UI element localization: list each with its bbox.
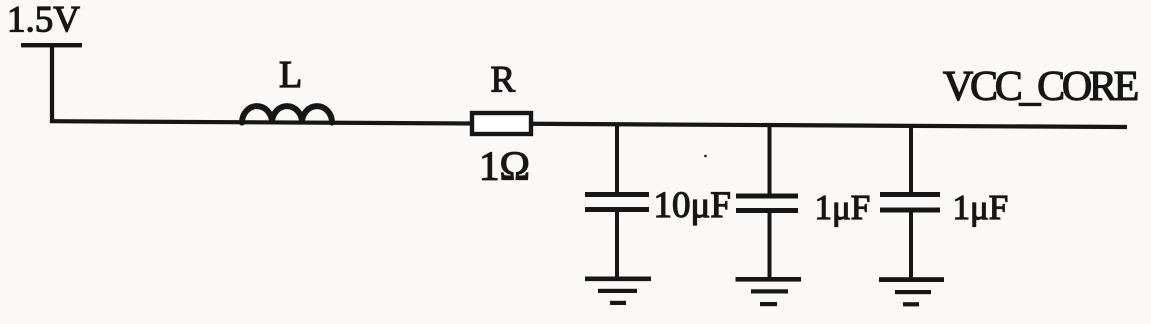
wire main rail [50, 121, 1127, 127]
ground G3 [879, 277, 944, 282]
inductor L [242, 106, 332, 123]
wire cap C3 stub [909, 125, 913, 278]
svg-text:10μF: 10μF [654, 185, 731, 226]
resistor R [472, 113, 531, 134]
svg-text:VCC_CORE: VCC_CORE [943, 64, 1138, 110]
capacitor C3 [880, 192, 940, 197]
svg-text:L: L [279, 54, 302, 96]
svg-text:1Ω: 1Ω [479, 143, 530, 189]
wire cap C2 stub [768, 124, 772, 278]
svg-text:1.5V: 1.5V [7, 0, 80, 41]
svg-text:1μF: 1μF [953, 188, 1009, 227]
svg-text:R: R [491, 60, 516, 101]
ground G1 [585, 277, 651, 282]
power terminal bar [21, 43, 82, 47]
capacitor C1 [585, 192, 649, 197]
ground G2 [736, 277, 802, 282]
wire from terminal down to main rail [50, 45, 54, 123]
scan speck [704, 155, 707, 158]
svg-text:1μF: 1μF [815, 188, 871, 227]
capacitor C2 [736, 194, 798, 199]
wire cap C1 stub [615, 123, 619, 277]
